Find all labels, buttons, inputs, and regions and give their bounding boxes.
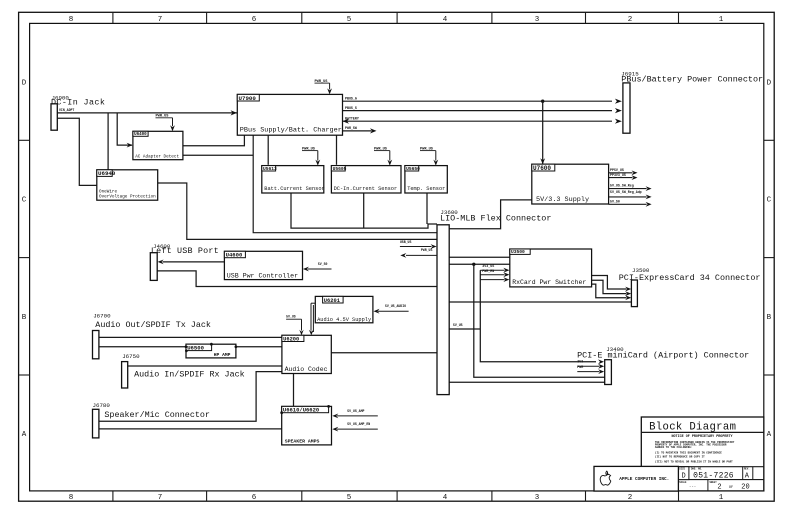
border row ticks: [19, 139, 30, 141]
svg-text:(II) NOT TO REPRODUCE OR COPY: (II) NOT TO REPRODUCE OR COPY IT: [655, 455, 705, 459]
svg-text:5V_US: 5V_US: [453, 323, 463, 327]
temp sensor U5650: [405, 166, 447, 193]
wire flex to card switcher B: [449, 263, 509, 265]
svg-text:5: 5: [347, 16, 352, 24]
svg-text:AGREES TO THE FOLLOWING:: AGREES TO THE FOLLOWING:: [655, 446, 692, 449]
wire DC-in sensor drop: [363, 193, 365, 228]
wire flex to expresscard data: [449, 301, 631, 303]
svg-text:U6200: U6200: [283, 336, 299, 342]
svg-text:8: 8: [69, 16, 74, 24]
svg-text:D: D: [22, 79, 27, 87]
wire charger to DC-in current sensor: [336, 135, 338, 165]
svg-text:U3500: U3500: [511, 249, 525, 255]
wire temp sensor drop: [426, 193, 428, 224]
wire charger bus to flex connector: [253, 135, 437, 233]
wire codec to speaker amps: [293, 374, 295, 407]
svg-text:051-7226: 051-7226: [693, 471, 734, 480]
svg-text:(III) NOT TO REVEAL OR PUBLISH: (III) NOT TO REVEAL OR PUBLISH IT IN WHO…: [655, 459, 733, 463]
svg-text:2: 2: [717, 484, 721, 492]
svg-text:PBUS_G: PBUS_G: [345, 97, 357, 101]
speaker mic connector J6780: [93, 409, 99, 438]
audio codec U6200: [282, 335, 331, 373]
USB port J4600: [150, 253, 157, 281]
svg-text:Audio In/SPDIF Rx Jack: Audio In/SPDIF Rx Jack: [134, 370, 245, 380]
5V 3.3V supply U7600: [532, 164, 609, 204]
svg-text:1: 1: [719, 16, 724, 24]
wire 5V out A: [609, 172, 633, 174]
svg-text:U6500: U6500: [187, 344, 204, 351]
svg-text:Block Diagram: Block Diagram: [649, 422, 736, 434]
svg-text:REV.: REV.: [744, 468, 750, 471]
DC-in current sensor U5605: [331, 166, 401, 193]
minicard connector J3400: [605, 360, 612, 385]
svg-text:APPLE COMPUTER INC.: APPLE COMPUTER INC.: [619, 477, 669, 482]
svg-text:PP3V3_US: PP3V3_US: [610, 173, 626, 177]
wire codec I2S to flex connector: [331, 352, 437, 354]
svg-text:DWG. NO.: DWG. NO.: [691, 468, 702, 471]
wire mic to codec: [99, 372, 282, 422]
svg-text:SHEET: SHEET: [710, 481, 718, 484]
svg-text:B: B: [767, 314, 772, 322]
wire switcher to expresscard C: [592, 284, 627, 298]
svg-text:A: A: [22, 431, 27, 439]
svg-text:5: 5: [347, 494, 352, 502]
wire flex connector to 5V supply input: [449, 200, 531, 229]
svg-text:1: 1: [719, 494, 724, 502]
svg-text:J6780: J6780: [93, 402, 111, 409]
svg-text:Speaker/Mic Connector: Speaker/Mic Connector: [104, 410, 210, 420]
svg-text:RxCard Pwr Switcher: RxCard Pwr Switcher: [512, 279, 586, 286]
svg-text:C: C: [22, 197, 27, 205]
junction dots on speaker amps tab: [280, 411, 283, 414]
svg-text:3: 3: [535, 494, 540, 502]
svg-text:U6201: U6201: [324, 298, 340, 304]
svg-text:SPEAKER AMPS: SPEAKER AMPS: [285, 438, 320, 444]
svg-text:Audio Codec: Audio Codec: [285, 366, 328, 373]
svg-text:U5650: U5650: [406, 166, 420, 172]
svg-text:PWR_US: PWR_US: [421, 248, 433, 252]
svg-text:7: 7: [158, 494, 163, 502]
svg-text:7: 7: [158, 16, 163, 24]
svg-text:NOTICE OF PROPRIETARY PROPERTY: NOTICE OF PROPRIETARY PROPERTY: [671, 435, 733, 439]
wire 3.3V out B: [609, 177, 633, 179]
svg-text:DC-In Jack: DC-In Jack: [51, 98, 105, 108]
svg-text:4: 4: [443, 494, 448, 502]
wire sensors bus to flex connector: [291, 193, 437, 228]
svg-text:3V3_US: 3V3_US: [482, 264, 494, 268]
svg-text:5V_US_AUDIO: 5V_US_AUDIO: [385, 304, 406, 308]
charger U7900: [237, 94, 342, 135]
svg-text:8: 8: [69, 494, 74, 502]
junction battery power node: [541, 100, 544, 103]
svg-text:5V_S0: 5V_S0: [318, 262, 328, 266]
headphone amp U6500: [186, 344, 236, 358]
wire flex to minicard data: [449, 381, 604, 383]
batt current sensor U5613: [262, 166, 324, 193]
wire power vertical down to minicard: [480, 329, 596, 362]
flex connector J3600: [437, 225, 449, 395]
svg-text:5V_S0: 5V_S0: [610, 199, 620, 203]
wire power vertical up: [479, 270, 481, 329]
wire drop to overvoltage protection: [107, 113, 109, 170]
arrowheads into battery power connector: [615, 99, 622, 104]
svg-text:5V_US_SW_Reg: 5V_US_SW_Reg: [610, 184, 634, 188]
svg-text:Batt.Current Sensor: Batt.Current Sensor: [264, 186, 324, 192]
svg-text:6: 6: [252, 16, 257, 24]
svg-text:5V_US_AMP: 5V_US_AMP: [347, 409, 364, 413]
wire PBUS A to battery connector: [343, 100, 613, 102]
wire switcher to expresscard A: [592, 276, 627, 290]
svg-text:5V_US_AMP_EN: 5V_US_AMP_EN: [347, 422, 370, 426]
wire 5V US SW REG out: [609, 196, 647, 198]
wire charger to batt current sensor: [267, 135, 269, 165]
svg-text:PBus/Battery Power Connector: PBus/Battery Power Connector: [621, 75, 763, 85]
wire audio in to codec: [128, 365, 282, 367]
svg-text:PBus Supply/Batt. Charger: PBus Supply/Batt. Charger: [240, 127, 342, 135]
apple logo box: [594, 466, 678, 491]
svg-text:5V/3.3 Supply: 5V/3.3 Supply: [536, 196, 589, 204]
border column ticks: [112, 12, 114, 23]
title block frame: [641, 417, 764, 491]
AC adapter detect U6400: [133, 131, 183, 159]
svg-text:5V_US: 5V_US: [286, 315, 296, 319]
svg-text:(I) TO MAINTAIN THIS DOCUMENT: (I) TO MAINTAIN THIS DOCUMENT IN CONFIDE…: [655, 451, 722, 455]
apple logo: [600, 471, 611, 485]
svg-text:USB_US: USB_US: [400, 240, 412, 244]
svg-text:OverVoltage Protection: OverVoltage Protection: [99, 194, 156, 199]
audio supply U6201: [315, 296, 373, 322]
svg-text:20: 20: [741, 484, 749, 492]
svg-text:6: 6: [252, 494, 257, 502]
svg-text:U6610/U6620: U6610/U6620: [283, 407, 319, 414]
svg-text:HP AMP: HP AMP: [214, 352, 231, 358]
title block rows: [641, 466, 764, 468]
svg-text:2: 2: [628, 494, 633, 502]
expresscard connector J3500: [631, 280, 637, 307]
svg-text:U7600: U7600: [533, 165, 551, 172]
svg-text:U6940: U6940: [98, 170, 116, 177]
svg-text:LIO-MLB Flex Connector: LIO-MLB Flex Connector: [440, 214, 551, 224]
wire jack to overvoltage input: [57, 118, 97, 185]
wire controller to USB port: [163, 261, 225, 263]
wire audio out R through HP amp to codec: [99, 346, 282, 348]
svg-text:U4600: U4600: [226, 252, 243, 259]
svg-text:5V_US_SW_Reg_Adp: 5V_US_SW_Reg_Adp: [610, 190, 642, 194]
wire charger status stub: [343, 130, 372, 132]
expresscard power switcher U3500: [510, 249, 592, 287]
svg-text:D: D: [767, 79, 772, 87]
wire USB data to flex connector: [157, 271, 437, 287]
svg-text:SIZE: SIZE: [679, 468, 685, 471]
svg-text:A: A: [767, 431, 772, 439]
svg-text:USB Pwr Controller: USB Pwr Controller: [227, 272, 298, 279]
wire 5V US SW out: [609, 188, 647, 190]
svg-text:U6400: U6400: [134, 133, 147, 137]
wire speaker to speaker amps: [99, 428, 282, 430]
svg-text:U5605: U5605: [333, 166, 347, 172]
speaker amps U6610 U6620: [282, 406, 332, 445]
svg-text:D: D: [681, 472, 685, 480]
wire audio supply to codec: [311, 302, 315, 304]
svg-text:2: 2: [628, 16, 633, 24]
svg-text:PWR_SW: PWR_SW: [345, 126, 357, 130]
DC-in jack J6900: [51, 104, 57, 130]
audio in jack J6750: [122, 362, 128, 388]
wire battery power to 5V supply: [542, 101, 544, 163]
svg-text:Left USB Port: Left USB Port: [151, 246, 219, 256]
svg-text:PWR_EN: PWR_EN: [482, 269, 494, 273]
svg-text:B: B: [22, 314, 27, 322]
svg-text:4: 4: [443, 16, 448, 24]
svg-text:J6750: J6750: [122, 353, 140, 360]
wire overvoltage out to flex connector: [158, 183, 437, 239]
svg-text:---: ---: [689, 486, 696, 490]
svg-text:Audio 4.5V Supply: Audio 4.5V Supply: [317, 317, 371, 323]
wire flex to power stub: [449, 328, 480, 330]
wire flex to card switcher A: [449, 256, 509, 258]
wire AC detect out to charger: [183, 135, 244, 146]
svg-text:PCI-ExpressCard 34 Connector: PCI-ExpressCard 34 Connector: [619, 273, 761, 283]
junction dots on HP amp: [185, 345, 188, 348]
overvoltage protection U6940: [97, 170, 158, 200]
svg-text:OF: OF: [729, 486, 733, 490]
svg-text:VIN_ADPT: VIN_ADPT: [59, 108, 74, 112]
wire switcher to expresscard B: [592, 280, 627, 293]
wire to minicard connector A: [474, 264, 605, 377]
svg-text:Audio Out/SPDIF Tx Jack: Audio Out/SPDIF Tx Jack: [95, 320, 211, 330]
audio out jack J6700: [93, 331, 99, 359]
svg-text:DC-In.Current Sensor: DC-In.Current Sensor: [334, 186, 398, 192]
wire 5V S0 out: [609, 203, 647, 205]
svg-text:SCALE: SCALE: [679, 481, 687, 484]
svg-text:AC Adapter Detect: AC Adapter Detect: [135, 155, 179, 160]
svg-text:C: C: [767, 197, 772, 205]
wire battery sense to charger: [343, 120, 613, 122]
svg-text:U7900: U7900: [239, 95, 257, 102]
wire VIN from DC-In jack to charger: [57, 112, 237, 114]
svg-text:PP5V_US: PP5V_US: [610, 168, 624, 172]
title Block Diagram: [641, 431, 764, 433]
svg-text:PCI-E miniCard (Airport) Conne: PCI-E miniCard (Airport) Connector: [577, 350, 749, 360]
svg-text:PBUS_S: PBUS_S: [345, 106, 357, 110]
svg-text:3: 3: [535, 16, 540, 24]
svg-text:U5613: U5613: [263, 166, 277, 172]
svg-text:Temp. Sensor: Temp. Sensor: [407, 186, 445, 192]
USB power controller U4600: [224, 251, 302, 279]
svg-text:J6700: J6700: [93, 313, 111, 320]
wire PBUS B to battery connector: [343, 110, 613, 112]
battery power connector J6915: [623, 83, 630, 133]
junction on switcher wire: [472, 263, 475, 266]
wire AC detect out 2: [183, 154, 253, 156]
wire drop to AC adapter detect: [117, 113, 132, 145]
wire audio out L to codec: [99, 336, 282, 338]
